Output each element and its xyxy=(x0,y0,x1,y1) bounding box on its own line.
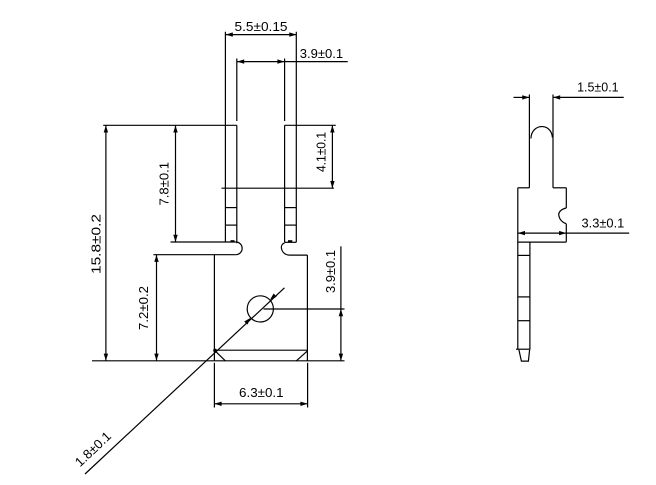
front view: left fold chamfer xyxy=(214,350,225,361)
front view: flange rounded end cap xyxy=(236,242,242,255)
svg-text:7.8±0.1: 7.8±0.1 xyxy=(157,162,172,206)
front view: serration line 2 left prong xyxy=(225,224,236,226)
dimension 3.9±0.1 right line xyxy=(340,246,342,360)
side view: stem left edge + 1.5 extension xyxy=(528,95,530,188)
front view: small tab mark on left prong bottom xyxy=(231,240,235,242)
front view: right prong inner edge xyxy=(284,125,286,242)
side view: body right edge upper xyxy=(565,188,567,208)
side view: pin right edge xyxy=(529,242,531,349)
leader line for 1.8±0.1 through hole xyxy=(85,288,285,474)
front view: body right edge xyxy=(306,255,308,361)
dimension 1.5±0.1 left line xyxy=(514,96,530,98)
front view: 3.9 extension above right prong inner edge xyxy=(284,59,286,122)
svg-text:4.1±0.1: 4.1±0.1 xyxy=(314,132,329,172)
side view: body right edge lower xyxy=(565,224,567,242)
front view: flange bottom edge (7.2 extension) xyxy=(153,254,235,256)
svg-text:6.3±0.1: 6.3±0.1 xyxy=(239,385,284,400)
svg-text:3.9±0.1: 3.9±0.1 xyxy=(323,250,338,293)
side view: right notch xyxy=(559,208,567,224)
front view: 3.9 extension above left prong inner edge xyxy=(236,59,238,122)
svg-text:5.5±0.15: 5.5±0.15 xyxy=(235,19,288,34)
front view: body left edge xyxy=(213,255,215,361)
svg-text:7.2±0.2: 7.2±0.2 xyxy=(136,286,151,330)
side view: pointed tip xyxy=(519,350,530,361)
front view: right prong top edge extended for 4.1 dim xyxy=(285,124,336,126)
dimension 1.5±0.1 right line xyxy=(553,96,624,98)
front view: serration line 1 right prong xyxy=(285,207,297,209)
dimension 5.5±0.15 line xyxy=(226,34,297,36)
side view: stem right edge + 1.5 extension xyxy=(552,95,554,188)
leader lower arrowhead at hole xyxy=(244,318,251,325)
dimension 6.3±0.1 right extension xyxy=(307,363,309,408)
front view: bottom edge extended both sides xyxy=(92,360,345,362)
svg-text:1.5±0.1: 1.5±0.1 xyxy=(577,80,619,95)
svg-text:3.3±0.1: 3.3±0.1 xyxy=(582,216,625,231)
front view: hole xyxy=(247,296,273,322)
side view: pin serration 3 xyxy=(518,320,530,322)
side view: body/pin left edge xyxy=(517,188,519,349)
front view: right fold chamfer xyxy=(296,351,307,361)
side view: body bottom edge xyxy=(518,241,566,243)
dimension 3.9±0.1 top line xyxy=(237,61,348,63)
dimension 15.8±0.2 line xyxy=(105,125,107,360)
front view: serration line 1 left prong xyxy=(225,207,236,209)
side view: pin serration 2 xyxy=(518,296,530,298)
front view: small tab mark on right prong bottom xyxy=(288,240,292,242)
side view: pin bottom tick xyxy=(516,348,530,350)
front view: right prong bend hook into body xyxy=(281,243,307,255)
dimension 4.1±0.1 line xyxy=(331,125,333,188)
front view: flange top edge (7.8 extension) xyxy=(171,241,236,243)
side view: pin serration 1 xyxy=(518,254,530,256)
front view: left prong top edge extended for 15.8/7.8 dims xyxy=(103,124,237,126)
dimension 7.2±0.2 line xyxy=(156,255,158,361)
dimension 6.3±0.1 left extension xyxy=(213,363,215,408)
svg-text:15.8±0.2: 15.8±0.2 xyxy=(89,214,104,274)
front view: right prong bottom edge xyxy=(285,241,297,243)
front view: bottom fold crease line xyxy=(214,349,307,351)
front view: slot bottom line extended for 4.1 dim xyxy=(222,187,335,189)
side view: left shoulder xyxy=(518,187,530,189)
front view: hole centerline extension for 3.9 dim xyxy=(264,308,345,310)
leader upper arrowhead at hole xyxy=(270,294,277,301)
front view: right prong outer edge + 5.5 extension xyxy=(295,32,297,243)
dimension 3.3±0.1 line xyxy=(518,232,629,234)
front view: left prong outer edge + 5.5 extension xyxy=(224,32,226,242)
front view: serration line 2 right prong xyxy=(285,224,297,226)
dimension 7.8±0.1 line xyxy=(175,125,177,242)
side view: rounded tip dome xyxy=(531,127,553,139)
side view: right shoulder xyxy=(553,187,566,189)
dimension 6.3±0.1 line xyxy=(214,403,307,405)
leader node dot at body corner xyxy=(213,349,217,353)
front view: left prong inner edge xyxy=(236,125,238,243)
svg-text:3.9±0.1: 3.9±0.1 xyxy=(300,46,343,61)
